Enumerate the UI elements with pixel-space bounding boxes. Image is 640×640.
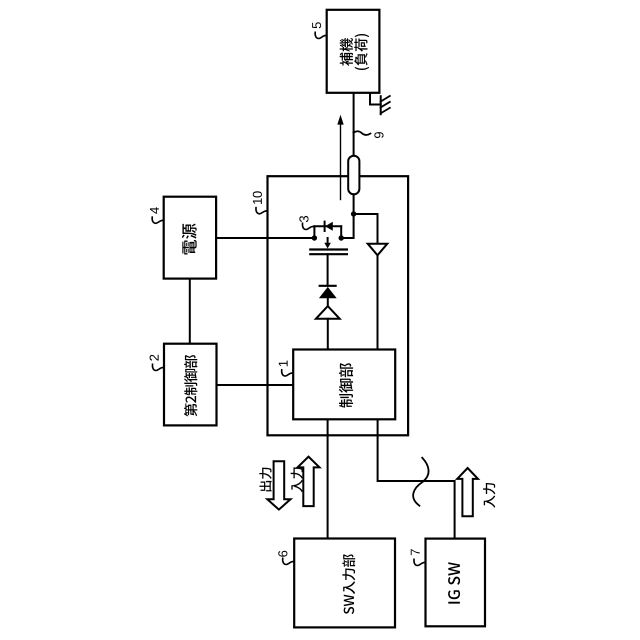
controller unit box 10 [268,176,409,435]
label 1 leader [282,370,294,376]
label 7 [411,549,420,555]
control box 1 [293,350,395,420]
label 6 [278,551,287,557]
open arrowhead up (signal direction) [316,306,340,319]
label 2 leader [152,364,164,370]
label 2 [150,355,159,361]
box 6 text [342,554,355,614]
2nd control box 2 [164,344,217,426]
IG input label text [483,483,495,508]
wire: ground branch from box 5 [370,93,381,105]
label 5 leader [315,32,327,38]
label 9 leader (tilde) [353,131,370,135]
hollow arrow up (input) [298,457,320,507]
box 2 text [184,355,197,417]
wire: 2nd control box 2 to control box 1 [217,384,294,386]
input label text [291,467,303,492]
label 3 leader [302,223,314,229]
wire: control box 1 to IG SW box 7 [378,419,455,538]
junction dot node [351,211,356,216]
label 1 [279,361,288,367]
gate lead wire [327,254,329,286]
transistor 3 (MOSFET with body diode) [310,222,347,255]
label 10 [253,191,262,204]
driver triangle (open, pointing down) [368,244,388,256]
box 4 text [182,224,197,255]
IG SW box 7 [426,539,486,627]
break squiggle on wire [413,458,428,506]
box 5 text line 2 [354,34,369,70]
label 5 [312,22,321,28]
wire: power box 4 to 2nd control box 2 [189,279,191,344]
label 3 [299,216,308,222]
wire: triangle to control box 1 [377,255,379,349]
diode (gate path, cathode bar up) [320,285,336,287]
box 7 text [448,562,460,603]
SW input box 6 [294,539,395,628]
wire: fuse to junction and MOSFET drain [341,194,353,238]
label 9 [374,132,383,138]
wire: power box 4 to MOSFET source [216,237,314,239]
label 6 leader [283,558,295,564]
power box 4 [164,197,216,279]
wire [327,298,329,306]
hollow arrow up (IG input) [457,468,478,516]
box 5 text line 1 [340,38,353,66]
wire: control box 1 to SW input box 6 [327,419,329,538]
wire [327,319,329,350]
junction dot MOSFET left [312,235,317,240]
wire: load box 5 to fuse 8 [353,93,355,156]
label 4 [150,207,159,214]
label 10 leader [256,208,268,214]
load box 5 (auxiliary machine) [327,10,380,93]
label 7 leader [414,559,426,565]
junction dot MOSFET right [339,235,344,240]
label 4 leader [152,217,164,223]
box 1 text [339,363,353,408]
current direction arrow [340,124,342,200]
wire: junction to driver triangle [354,214,378,244]
fuse element (capsule) [348,156,359,195]
ground symbol [381,96,390,114]
output label text [259,468,271,492]
hollow arrow down (output) [267,461,290,509]
